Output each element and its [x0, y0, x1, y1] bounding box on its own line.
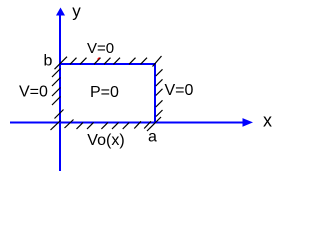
x-axis: [10, 122, 244, 124]
svg-text:b: b: [44, 53, 53, 70]
y-axis arrowhead: [56, 8, 65, 16]
svg-text:a: a: [148, 128, 157, 145]
red artifact pixel: [98, 58, 100, 60]
svg-text:P=0: P=0: [90, 84, 119, 101]
label V=0 top: [87, 40, 114, 57]
label a: [148, 128, 157, 145]
y-axis: [59, 10, 61, 171]
label P=0: [90, 84, 119, 101]
svg-text:Vo(x): Vo(x): [87, 132, 124, 149]
label b: [44, 53, 53, 70]
hatching top edge: [55, 56, 162, 69]
x-axis arrowhead: [243, 118, 254, 127]
rectangle right edge: [154, 63, 156, 123]
svg-text:V=0: V=0: [19, 84, 48, 101]
svg-text:y: y: [72, 1, 81, 20]
hatching bottom edge: [65, 120, 152, 130]
label y: [72, 1, 81, 20]
label V=0 left: [19, 84, 48, 101]
hatching right edge: [147, 69, 163, 131]
label V=0 right: [165, 82, 194, 99]
svg-text:V=0: V=0: [165, 82, 194, 99]
hatching left edge: [51, 69, 64, 131]
rectangle top edge: [59, 63, 156, 65]
label Vo(x): [87, 132, 124, 149]
label x: [263, 111, 272, 131]
svg-text:V=0: V=0: [87, 40, 114, 57]
svg-text:x: x: [263, 111, 272, 131]
